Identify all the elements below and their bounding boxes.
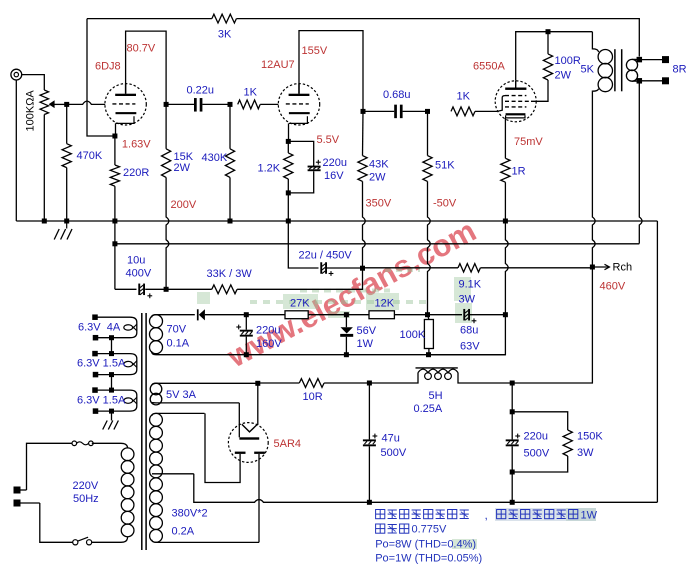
wire plug to fuse xyxy=(27,443,73,490)
svg-text:220u: 220u xyxy=(524,431,548,443)
svg-text:155V: 155V xyxy=(302,45,328,57)
resistor 1R cathode xyxy=(501,158,510,182)
label 2W (100R) xyxy=(555,70,572,82)
wire plug to switch xyxy=(40,503,73,542)
label 220u (160V) xyxy=(256,325,280,337)
resistor 3K feedback xyxy=(212,14,237,23)
svg-text:22u / 450V: 22u / 450V xyxy=(299,250,353,262)
svg-text:68u: 68u xyxy=(460,325,478,337)
wire HT center tap xyxy=(152,473,194,475)
svg-text:0.2A: 0.2A xyxy=(172,526,195,538)
svg-text:220R: 220R xyxy=(123,167,149,179)
capacitor 220u/16V bypass xyxy=(288,141,320,193)
svg-text:5V 3A: 5V 3A xyxy=(166,389,197,401)
node choke output xyxy=(510,381,515,386)
svg-text:10R: 10R xyxy=(303,391,323,403)
wire 5AR4 left plate routing xyxy=(205,413,240,482)
svg-text:2W: 2W xyxy=(555,70,572,82)
node 1R ground xyxy=(503,219,508,224)
chassis ground symbol (heater) xyxy=(103,421,119,430)
capacitor 22u/450V xyxy=(320,262,362,276)
svg-text:6550A: 6550A xyxy=(473,61,505,73)
label 100K xyxy=(400,329,426,341)
wire 1K to 6550A grid riser xyxy=(475,96,505,112)
svg-text:3K: 3K xyxy=(218,29,232,41)
node 350V junction xyxy=(360,266,365,271)
svg-text:5AR4: 5AR4 xyxy=(274,438,302,450)
wire 27K to zener node xyxy=(308,314,346,316)
node pot ground xyxy=(42,219,47,224)
resistor 51K xyxy=(423,111,432,181)
label 500V (47u) xyxy=(381,447,407,459)
node 200V rail junction xyxy=(164,287,169,292)
svg-text:6.3V 1.5A: 6.3V 1.5A xyxy=(77,358,126,370)
label 15K xyxy=(174,151,194,163)
node 460V Rch xyxy=(590,265,595,270)
node 6DJ8 plate / 0.22u xyxy=(164,102,169,107)
label 12AU7 xyxy=(261,59,295,71)
resistor 27K (box) xyxy=(285,311,308,319)
terminal 6.3V4A top xyxy=(92,314,98,320)
wire choke output drop xyxy=(511,383,513,412)
svg-text:0.68u: 0.68u xyxy=(383,89,411,101)
svg-text:0.775V: 0.775V xyxy=(412,524,448,536)
svg-text:6DJ8: 6DJ8 xyxy=(95,61,121,73)
wire 5AR4 right plate drop xyxy=(258,454,260,543)
label 1.2K xyxy=(258,163,281,175)
label 56V xyxy=(357,325,377,337)
label 9.1K xyxy=(459,279,482,291)
wire grid node to 6DJ8 grid with hop xyxy=(67,101,106,104)
wire 22u ground drop xyxy=(288,221,318,268)
svg-text:220V: 220V xyxy=(73,480,99,492)
heater winding 6.3V 1.5A (b) xyxy=(95,390,137,411)
wire 70V winding to diode xyxy=(156,314,195,316)
wire secondary bottom to speaker-return rail with hop xyxy=(639,81,642,244)
tube V1 6DJ8 electrodes xyxy=(112,84,136,124)
node -50V junction xyxy=(425,312,430,317)
node 470K ground xyxy=(64,219,69,224)
wire 6550A cathode drop xyxy=(504,118,506,158)
wire 6550A plate to B+ node xyxy=(516,32,593,81)
svg-text:6.3V 1.5A: 6.3V 1.5A xyxy=(77,395,126,407)
label 6.3V 4A xyxy=(78,322,121,334)
label 100R xyxy=(555,55,581,67)
svg-text:16V: 16V xyxy=(324,170,344,182)
label 0.68u xyxy=(383,89,411,101)
label 220u (500V) xyxy=(524,431,548,443)
label 6.3V 1.5A (b) xyxy=(77,395,126,407)
label 8R xyxy=(673,64,687,76)
capacitor 47u/500V xyxy=(363,383,377,502)
diode D1 bias rectifier xyxy=(197,309,246,320)
tube V1 6DJ8 envelope xyxy=(105,84,146,125)
wire pot bottom to ground bus xyxy=(43,115,45,222)
label 16V xyxy=(324,170,344,182)
resistor 430K xyxy=(225,104,234,221)
terminal speaker - xyxy=(662,77,669,84)
label 0.25A xyxy=(414,403,443,415)
svg-text:3W: 3W xyxy=(577,447,594,459)
label 12K xyxy=(375,298,395,310)
node zener top xyxy=(344,312,349,317)
resistor 470K xyxy=(62,104,71,221)
svg-text:12K: 12K xyxy=(375,298,395,310)
svg-text:220u: 220u xyxy=(323,157,347,169)
svg-text:100KΩA: 100KΩA xyxy=(25,90,37,132)
wire 1.2K bottom to ground bus xyxy=(287,193,289,221)
svg-text:380V*2: 380V*2 xyxy=(172,508,208,520)
label 63V xyxy=(460,341,480,353)
svg-text:220u: 220u xyxy=(256,325,280,337)
potentiometer 100K-A body xyxy=(40,90,48,115)
note line2 (sensitivity 0.775V) xyxy=(376,524,447,536)
heater winding 6.3V 4A xyxy=(95,317,137,338)
terminal 6.3V1.5Ab bottom xyxy=(93,408,99,414)
label 220u (16V) xyxy=(323,157,347,169)
svg-text:43K: 43K xyxy=(369,159,389,171)
node zener bottom xyxy=(344,352,349,357)
wire 220R-ground drop to 10u xyxy=(114,221,116,289)
label Rch xyxy=(613,262,633,274)
feedback top rail xyxy=(87,19,639,57)
wire zener node to 12K xyxy=(346,314,369,316)
svg-text:500V: 500V xyxy=(524,448,550,460)
node 1.2K ground xyxy=(286,219,291,224)
label 51K xyxy=(435,160,455,172)
bias bottom rail xyxy=(156,354,505,356)
wire output node to filament xyxy=(257,383,259,425)
label 150K xyxy=(577,431,603,443)
capacitor 220u/500V xyxy=(506,412,520,472)
label 68u xyxy=(460,325,478,337)
resistor 33K/3W xyxy=(166,268,362,294)
svg-text:0.1A: 0.1A xyxy=(167,338,190,350)
label 10R xyxy=(303,391,323,403)
svg-text:430K: 430K xyxy=(202,152,228,164)
tube V3 6550A plate xyxy=(505,81,526,90)
svg-text:12AU7: 12AU7 xyxy=(261,59,295,71)
label 1.63V xyxy=(122,139,151,151)
svg-text:0.25A: 0.25A xyxy=(414,403,443,415)
node 430K top xyxy=(228,102,233,107)
node 220u ground xyxy=(510,500,515,505)
label 220R xyxy=(123,167,149,179)
resistor 1K grid 12AU7 xyxy=(238,100,261,109)
wire heater chain 2-3 xyxy=(111,375,113,391)
node rectifier output xyxy=(255,381,260,386)
node 47u top xyxy=(367,381,372,386)
zener diode 56V/1W xyxy=(340,315,353,355)
label 350V xyxy=(366,198,392,210)
node 150K branch xyxy=(510,409,515,414)
label 6.3V 1.5A (a) xyxy=(77,358,126,370)
capacitor 220u/160V xyxy=(236,315,253,355)
capacitor 68u/63V xyxy=(463,309,505,323)
input jack J1 xyxy=(11,69,22,80)
resistor 1K grid 6550A xyxy=(451,107,475,116)
svg-text:5H: 5H xyxy=(429,390,443,402)
svg-text:150K: 150K xyxy=(577,431,603,443)
node 12AU7 plate / 0.68u / 43K xyxy=(361,109,366,114)
wire wiper to grid node xyxy=(54,103,66,105)
primary winding 220V xyxy=(92,443,134,542)
label 220V xyxy=(73,480,99,492)
svg-text:1R: 1R xyxy=(512,166,526,178)
wire 150K branch xyxy=(512,412,568,430)
label 27K xyxy=(290,298,310,310)
svg-text:56V: 56V xyxy=(357,325,377,337)
label 100K ohm A xyxy=(25,90,37,132)
node 1.2K top xyxy=(286,139,291,144)
label 160V xyxy=(256,338,282,350)
choke 5H 0.25A xyxy=(369,368,512,383)
label 1K (6550A grid) xyxy=(457,91,471,103)
rectifier winding 5V 3A xyxy=(150,383,258,405)
node 430K ground xyxy=(228,219,233,224)
svg-text:Po=1W (THD=0.05%): Po=1W (THD=0.05%) xyxy=(375,553,482,565)
wire center tap to ground rail with hop xyxy=(194,474,658,503)
wire 12AU7 plate up and over xyxy=(299,31,363,112)
terminal mains N xyxy=(14,500,21,507)
label 3W (9.1K) xyxy=(459,294,476,306)
label 43K xyxy=(369,159,389,171)
label 0.2A xyxy=(172,526,195,538)
wire ground drop to bias bottom rail xyxy=(428,315,506,355)
svg-text:2W: 2W xyxy=(174,162,191,174)
tube V4 5AR4 envelope xyxy=(228,423,268,463)
svg-text:70V: 70V xyxy=(167,324,187,336)
resistor 220R xyxy=(110,136,119,221)
label 460V xyxy=(600,281,626,293)
svg-text:47u: 47u xyxy=(382,433,400,445)
speaker return rail xyxy=(115,243,639,245)
svg-text:50Hz: 50Hz xyxy=(73,493,99,505)
tube V4 5AR4 plates xyxy=(235,452,265,454)
wire plug stub N xyxy=(21,502,40,504)
wire secondary bottom to speaker terminal xyxy=(639,80,665,82)
label 5H xyxy=(429,390,443,402)
wire heater chain 1-2 xyxy=(111,338,113,354)
label 3W (150K) xyxy=(577,447,594,459)
wire 15K bottom to 200V rail with hops xyxy=(166,177,169,289)
wire 220u bottom to ground rail xyxy=(511,472,513,502)
label 1W (zener) xyxy=(357,338,374,350)
label 0.22u xyxy=(187,85,215,97)
label 430K xyxy=(202,152,228,164)
svg-text:9.1K: 9.1K xyxy=(459,279,482,291)
terminal 6.3V4A bottom xyxy=(93,335,99,341)
HT winding 380V*2 0.2A xyxy=(150,413,259,542)
svg-text:80.7V: 80.7V xyxy=(127,43,156,55)
svg-text:1W: 1W xyxy=(581,510,598,522)
svg-text:33K / 3W: 33K / 3W xyxy=(207,268,253,280)
wire screen resistor to screen grid xyxy=(531,80,548,101)
label 80.7V xyxy=(127,43,156,55)
resistor 12K (box) xyxy=(369,311,394,319)
capacitor 10u/400V xyxy=(115,284,166,299)
power transformer core xyxy=(142,313,146,550)
tube V2 12AU7 envelope xyxy=(278,84,319,125)
resistor 43K 2W xyxy=(358,111,367,181)
node secondary bottom xyxy=(637,78,643,84)
terminal 6.3V1.5Aa top xyxy=(92,351,98,357)
svg-text:470K: 470K xyxy=(77,150,103,162)
svg-text:400V: 400V xyxy=(126,268,152,280)
terminal speaker + xyxy=(662,56,669,63)
resistor 100K (box) xyxy=(424,315,433,355)
node wiper/470K junction xyxy=(64,102,69,107)
svg-text:2W: 2W xyxy=(369,172,386,184)
node 220u/160V bottom xyxy=(244,352,249,357)
label 155V xyxy=(302,45,328,57)
wire plug stub L xyxy=(21,489,27,491)
wire -50V node to 68u xyxy=(428,314,463,316)
svg-text:,: , xyxy=(485,508,488,522)
bias winding 70V 0.1A xyxy=(150,315,163,354)
wire OPT primary bottom drop with hops xyxy=(512,91,595,383)
svg-text:-50V: -50V xyxy=(433,198,457,210)
svg-text:100K: 100K xyxy=(400,329,426,341)
resistor 9.1K 3W xyxy=(458,264,592,272)
svg-text:27K: 27K xyxy=(290,298,310,310)
label 33K / 3W xyxy=(207,268,253,280)
node cathode/feedback junction xyxy=(112,134,117,139)
label 5.5V xyxy=(317,134,340,146)
svg-text:Po=8W (THD=0.4%): Po=8W (THD=0.4%) xyxy=(375,539,476,551)
wire 6DJ8 cathode drop xyxy=(115,123,117,136)
svg-text:100R: 100R xyxy=(555,55,581,67)
wire 6DJ8 plate up and over xyxy=(126,31,167,104)
capacitor 0.68u xyxy=(363,105,428,119)
node 220R ground xyxy=(112,219,117,224)
svg-text:10u: 10u xyxy=(127,255,145,267)
label 200V xyxy=(171,199,197,211)
svg-text:1.63V: 1.63V xyxy=(122,139,151,151)
wire 70V bottom lead xyxy=(152,351,157,355)
node 220u bottom junction xyxy=(510,470,515,475)
svg-text:6.3V 4A: 6.3V 4A xyxy=(78,322,121,334)
note line1 (decoupling note) xyxy=(376,508,598,522)
resistor 100R 2W screen xyxy=(543,32,552,80)
svg-text:1.2K: 1.2K xyxy=(258,163,281,175)
label 5AR4 xyxy=(274,438,302,450)
wire feedback drop from top rail xyxy=(87,19,115,136)
svg-text:75mV: 75mV xyxy=(514,136,543,148)
note line4 Po=1W xyxy=(375,553,482,565)
terminal 6.3V1.5Aa bottom xyxy=(93,372,99,378)
label 500V (220u) xyxy=(524,448,550,460)
wire 43K bottom to 350V node with hops xyxy=(363,181,366,268)
tube V3 6550A cathode xyxy=(506,113,526,118)
terminal mains L xyxy=(14,487,21,494)
watermark xyxy=(197,213,596,549)
svg-text:1W: 1W xyxy=(357,338,374,350)
svg-text:51K: 51K xyxy=(435,160,455,172)
label 1R xyxy=(512,166,526,178)
node 1.2K bottom xyxy=(286,190,291,195)
wire jack ground drop xyxy=(15,80,17,221)
tube V3 6550A envelope xyxy=(495,81,536,122)
svg-text:460V: 460V xyxy=(600,281,626,293)
capacitor 0.22u xyxy=(166,98,230,112)
mains switch xyxy=(73,537,92,545)
potentiometer wiper arrow xyxy=(49,100,55,108)
node chain junctions xyxy=(109,335,114,413)
output transformer secondary winding xyxy=(626,59,639,81)
svg-text:1K: 1K xyxy=(244,87,258,99)
mains fuse xyxy=(72,441,93,446)
wire 1K to 12AU7 grid xyxy=(260,103,278,105)
node screen resistor top xyxy=(546,29,551,34)
tube V4 5AR4 filament xyxy=(242,424,258,432)
node 68u right / ground drop xyxy=(503,312,508,317)
tube V4 5AR4 filament bar xyxy=(239,437,259,439)
node 220u/160V top xyxy=(244,312,249,317)
svg-text:5.5V: 5.5V xyxy=(317,134,340,146)
tube V2 12AU7 electrodes xyxy=(286,84,310,124)
label 1K (12AU7 grid) xyxy=(244,87,258,99)
svg-text:63V: 63V xyxy=(460,341,480,353)
wire heater chain to ground xyxy=(111,411,113,420)
label 5K xyxy=(581,64,595,76)
svg-text:8R: 8R xyxy=(673,64,687,76)
wire ground-to-bias-rail drop with hops xyxy=(505,221,508,315)
label 75mV xyxy=(514,136,543,148)
ground bus xyxy=(16,221,657,502)
resistor 1.2K xyxy=(284,141,293,193)
wire secondary top to speaker terminal xyxy=(639,59,665,61)
wire 5V lead to filament xyxy=(238,403,240,437)
wire 70V top lead xyxy=(152,315,157,318)
node 47u ground xyxy=(367,500,372,505)
resistor 150K 3W xyxy=(512,430,572,472)
svg-text:160V: 160V xyxy=(256,338,282,350)
resistor 15K 2W xyxy=(162,104,171,177)
label -50V xyxy=(433,198,457,210)
wire 350V to 9.1K xyxy=(363,267,459,269)
label 22u / 450V xyxy=(299,250,353,262)
wire 12K to -50V node xyxy=(394,314,427,316)
label 3K xyxy=(218,29,232,41)
svg-text:5K: 5K xyxy=(581,64,595,76)
label 10u xyxy=(127,255,145,267)
svg-text:350V: 350V xyxy=(366,198,392,210)
node secondary top xyxy=(637,57,643,63)
label 6DJ8 xyxy=(95,61,121,73)
heater winding 6.3V 1.5A (a) xyxy=(95,354,137,375)
arrow Rch output xyxy=(592,264,609,269)
chassis ground symbol (main) xyxy=(54,221,72,240)
wire 12AU7 cathode drop xyxy=(288,123,290,141)
node 100K bottom xyxy=(426,352,431,357)
label 380V*2 xyxy=(172,508,208,520)
label 470K xyxy=(77,150,103,162)
svg-text:200V: 200V xyxy=(171,199,197,211)
label 0.1A xyxy=(167,338,190,350)
svg-text:500V: 500V xyxy=(381,447,407,459)
label 400V (10u) xyxy=(126,268,152,280)
wire 1R to ground bus xyxy=(504,182,506,221)
label 70V xyxy=(167,324,187,336)
svg-text:1K: 1K xyxy=(457,91,471,103)
svg-text:3W: 3W xyxy=(459,294,476,306)
node speaker return at star ground xyxy=(112,241,117,246)
svg-text:Rch: Rch xyxy=(613,262,633,274)
label 2W (43K) xyxy=(369,172,386,184)
output transformer primary winding 5K xyxy=(592,32,612,92)
label 47u xyxy=(382,433,400,445)
